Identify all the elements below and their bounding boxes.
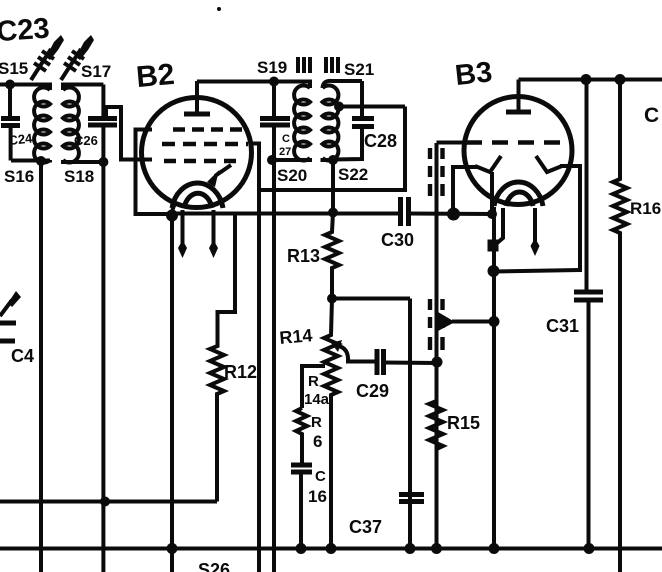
node AVC xyxy=(489,316,500,327)
node rail C31 xyxy=(581,74,592,85)
node bus R15 xyxy=(431,543,442,554)
speck xyxy=(217,7,221,11)
B2 grid g3 (top dashed row) xyxy=(173,127,242,131)
B2 grid g1 (bottom dashed row) xyxy=(164,159,236,163)
core marks above S21 xyxy=(326,57,338,73)
B2 anode xyxy=(184,81,210,114)
svg-text:C28: C28 xyxy=(364,131,397,151)
svg-text:S26: S26 xyxy=(198,560,230,572)
capacitor C28 xyxy=(333,81,397,160)
wire S21 tap box to B2 g2 xyxy=(259,107,405,191)
svg-text:C30: C30 xyxy=(381,230,414,250)
tube B2 envelope xyxy=(142,98,252,208)
wire C26 to B2 grid g1 xyxy=(106,107,152,160)
wire cathode to C31 leg xyxy=(494,270,581,272)
svg-text:27: 27 xyxy=(279,146,291,158)
node bus C37 xyxy=(405,543,416,554)
resistor R16 xyxy=(613,80,661,572)
wire right diode plate xyxy=(560,166,580,272)
B2 grid g2 (middle dashed row) xyxy=(162,142,248,146)
resistor R6 xyxy=(296,408,307,464)
svg-text:16: 16 xyxy=(308,487,327,506)
capacitor C30 xyxy=(381,197,492,250)
B2 heater lead arrows xyxy=(178,210,218,258)
B2 cathode arc xyxy=(172,183,223,208)
node bus AVC xyxy=(489,543,500,554)
svg-text:C31: C31 xyxy=(546,316,579,336)
svg-text:C: C xyxy=(315,468,326,485)
R14 wiper arrow from C29 xyxy=(338,346,348,362)
core marks above S19 xyxy=(298,57,310,73)
wire B3 grid xyxy=(437,141,469,145)
coil S15 (with C24 in parallel) xyxy=(10,85,50,163)
svg-text:6: 6 xyxy=(313,432,322,451)
wire S22 to grid bus xyxy=(331,160,335,213)
node R13 top xyxy=(328,208,338,218)
node bus cathode xyxy=(167,543,178,554)
svg-text:C26: C26 xyxy=(74,133,98,148)
wire B2 anode to S19 xyxy=(197,80,274,84)
B3 anode rail xyxy=(519,78,662,82)
node S18 bottom xyxy=(98,157,108,167)
wire node to C37 branch xyxy=(332,297,410,301)
ground bus xyxy=(0,547,662,551)
coil S21 xyxy=(323,81,363,161)
svg-text:C37: C37 xyxy=(349,517,382,537)
node S16 bottom xyxy=(36,156,46,166)
capacitor C27 xyxy=(260,82,291,161)
node on grid bus xyxy=(487,209,497,219)
resistor R13 xyxy=(287,213,339,299)
svg-text:C4: C4 xyxy=(11,346,34,366)
svg-text:S15: S15 xyxy=(0,59,28,78)
B2 diode arrow xyxy=(207,165,231,187)
chassis line y501 xyxy=(0,500,217,504)
capacitor C24 xyxy=(1,85,34,161)
svg-text:R16: R16 xyxy=(630,199,661,218)
B3 cathode+heater leads left xyxy=(488,207,504,271)
B3 cathode arc xyxy=(494,182,543,206)
capacitor C26 xyxy=(74,85,117,163)
svg-text:C29: C29 xyxy=(356,381,389,401)
capacitor C37 branch xyxy=(349,299,424,549)
svg-text:S18: S18 xyxy=(64,167,94,186)
wire AVC down to bus xyxy=(492,271,496,549)
resistor R15 xyxy=(429,401,480,449)
svg-text:S22: S22 xyxy=(338,165,368,184)
shield dashes lower xyxy=(430,299,443,350)
node below R13 xyxy=(327,294,337,304)
svg-text:14a: 14a xyxy=(304,391,330,408)
grid bus from B2 cathode to C30 xyxy=(172,212,400,216)
svg-text:S19: S19 xyxy=(257,58,287,77)
capacitor C29 xyxy=(346,349,437,401)
svg-text:C24: C24 xyxy=(8,130,34,147)
node S15 top xyxy=(5,80,15,90)
node B2 cathode junction xyxy=(166,210,178,222)
wire from left edge to S15 top xyxy=(0,83,10,87)
resistor R14 (potentiometer) xyxy=(279,299,338,549)
wire S20 down xyxy=(272,160,276,572)
node bus R14 xyxy=(326,543,337,554)
capacitor C31 xyxy=(546,80,603,549)
shielded wire to B3 grid xyxy=(435,143,439,549)
node diode stub on bus xyxy=(447,208,460,221)
B3 diode plate right xyxy=(536,156,562,172)
tube B3 envelope xyxy=(464,97,572,205)
wire left diode to grid bus xyxy=(453,167,477,214)
wire S21 tap to right xyxy=(335,105,405,109)
B3 heater arc xyxy=(506,192,533,206)
node S19 top xyxy=(269,77,279,87)
coil S17 (with C26) xyxy=(63,85,103,163)
B2 heater arc xyxy=(184,193,212,208)
shield dashes upper xyxy=(430,148,443,196)
svg-text:R12: R12 xyxy=(224,362,257,382)
capacitor C16 xyxy=(291,465,327,549)
branch R14a/R6/C16 stub xyxy=(302,366,325,408)
svg-text:R: R xyxy=(311,414,322,431)
tuning arrow 1 over S15 xyxy=(31,35,64,80)
svg-text:C: C xyxy=(644,104,659,127)
B3 grid dashed row xyxy=(466,140,560,144)
tuning arrow 2 over S17 xyxy=(61,35,94,80)
wire B2 g3 to cathode node xyxy=(136,130,169,215)
node bus C31 xyxy=(584,543,595,554)
wire tap to AVC line xyxy=(452,320,494,324)
svg-text:S16: S16 xyxy=(4,167,34,186)
wire B2 g2 down xyxy=(250,144,259,572)
node C29 to shield line xyxy=(432,357,443,368)
node rail R16 xyxy=(615,74,626,85)
wire B2 cathode down xyxy=(170,216,174,572)
B3 heater arrow xyxy=(531,208,540,256)
shield tap triangle xyxy=(438,312,455,331)
B3 anode xyxy=(506,80,531,113)
svg-text:C23: C23 xyxy=(0,13,51,49)
node bus C16 xyxy=(296,543,307,554)
node cathode line xyxy=(488,265,500,277)
trimmer C4 xyxy=(0,291,34,366)
svg-text:R15: R15 xyxy=(447,413,480,433)
svg-text:S21: S21 xyxy=(344,60,374,79)
svg-text:S17: S17 xyxy=(81,62,111,81)
svg-text:B3: B3 xyxy=(453,56,493,92)
wire S16 down xyxy=(39,161,43,572)
node S18 line on chassis xyxy=(100,497,110,507)
svg-text:C: C xyxy=(282,133,290,145)
B2 cathode lead xyxy=(171,203,175,214)
svg-text:R: R xyxy=(308,373,319,390)
B3 diode plate left xyxy=(475,156,501,172)
wire S18 down xyxy=(101,162,105,572)
resistor R12 xyxy=(210,214,257,502)
coil S19 xyxy=(272,82,310,161)
node S22 bottom xyxy=(328,155,338,165)
svg-text:R13: R13 xyxy=(287,246,320,266)
node S20 bottom xyxy=(267,155,277,165)
svg-text:R14: R14 xyxy=(279,325,314,348)
wire left diode lead down xyxy=(490,172,494,214)
node S21 tap xyxy=(334,102,344,112)
svg-text:B2: B2 xyxy=(135,58,176,94)
svg-text:S20: S20 xyxy=(277,166,307,185)
